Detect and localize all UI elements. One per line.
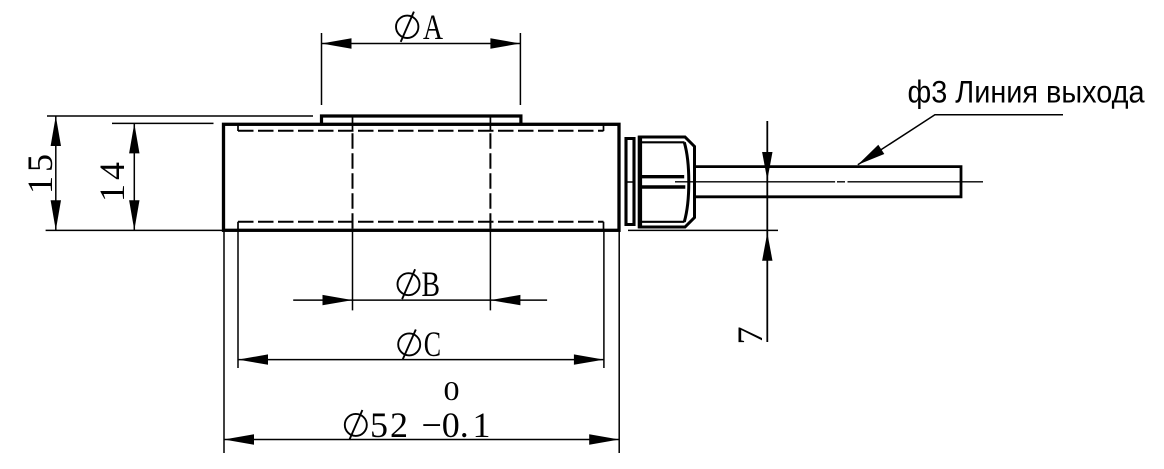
dimension C extension lines xyxy=(238,230,604,368)
boss on top xyxy=(322,116,521,124)
hex inner top line xyxy=(640,141,685,143)
dimension B extension lines xyxy=(353,230,491,310)
hex inner bottom line xyxy=(640,221,685,223)
gland spacer ring xyxy=(626,139,634,225)
dimension A line xyxy=(322,43,521,45)
extension line top of boss (15) xyxy=(47,115,313,117)
extension line bottom left xyxy=(46,229,223,231)
hex middle band lower xyxy=(640,185,685,188)
inner step left xyxy=(237,124,239,230)
svg-text:0: 0 xyxy=(444,375,460,406)
dimension 52 extension lines xyxy=(224,230,619,453)
dimension 14 line xyxy=(133,123,135,230)
dimension 52 line xyxy=(224,439,619,441)
hidden bore B right edge xyxy=(489,116,491,230)
cable gland hex nut outline xyxy=(640,137,695,227)
hidden bore bottom dashed xyxy=(238,221,604,223)
dimension B line xyxy=(293,299,547,301)
hex middle band upper xyxy=(640,175,684,178)
dimension C symbol xyxy=(398,330,420,360)
dimension C line xyxy=(238,359,604,361)
hidden bore B left edge xyxy=(352,116,354,230)
svg-text:−0.: −0. xyxy=(422,405,469,445)
dimension 52 symbol xyxy=(345,410,367,440)
dimension A symbol xyxy=(396,12,418,42)
hex facet arc xyxy=(684,142,689,222)
svg-text:1: 1 xyxy=(473,405,491,445)
extension line bottom right (7) xyxy=(628,229,778,231)
dimension 7 line xyxy=(766,121,768,342)
dimension A extension lines xyxy=(322,33,521,105)
svg-text:7: 7 xyxy=(730,327,770,345)
hex left edge thick face xyxy=(638,136,642,229)
svg-text:ф3 Линия выхода: ф3 Линия выхода xyxy=(908,74,1145,110)
inner step right xyxy=(603,124,605,230)
spacer center mark xyxy=(628,181,633,183)
dimension B symbol xyxy=(398,269,420,299)
body outline xyxy=(224,124,620,230)
svg-text:C: C xyxy=(424,324,441,364)
cable centerline xyxy=(675,181,983,183)
svg-text:A: A xyxy=(423,7,443,47)
cable xyxy=(695,167,962,197)
dimension 15 line xyxy=(55,116,57,230)
extension line top of body (14) xyxy=(112,122,214,124)
leader line for cable label xyxy=(858,115,1063,165)
svg-text:B: B xyxy=(422,264,441,304)
hidden bore top dashed xyxy=(238,130,604,132)
